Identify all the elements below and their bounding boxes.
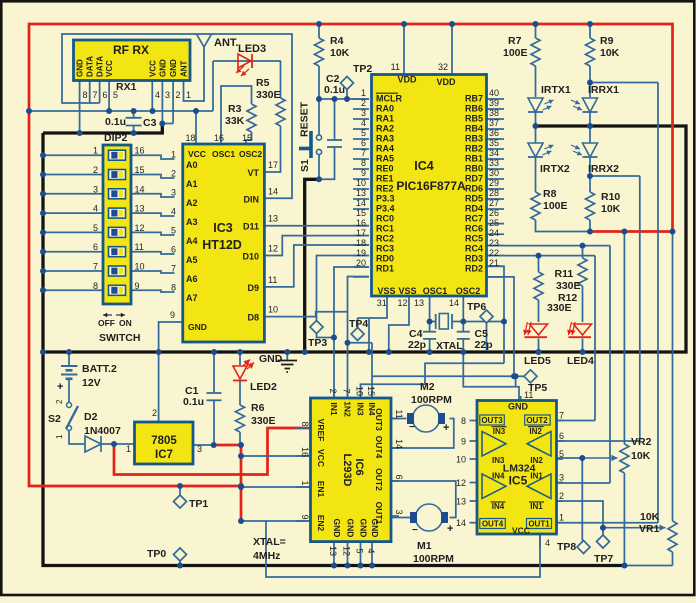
svg-text:330E: 330E (556, 280, 581, 292)
svg-text:7: 7 (93, 90, 98, 100)
svg-text:VDD: VDD (436, 77, 456, 87)
svg-text:GND: GND (332, 519, 342, 538)
svg-text:SWITCH: SWITCH (99, 332, 140, 344)
svg-text:4: 4 (366, 548, 376, 553)
svg-text:DATA: DATA (96, 56, 105, 77)
svg-text:9: 9 (461, 437, 466, 447)
svg-text:11: 11 (268, 275, 277, 285)
svg-text:0.1u: 0.1u (324, 84, 345, 96)
svg-text:2: 2 (328, 388, 338, 393)
svg-text:OUT4: OUT4 (482, 520, 504, 529)
svg-text:R9: R9 (600, 35, 614, 47)
svg-text:S2: S2 (48, 413, 61, 425)
svg-text:OUT1: OUT1 (528, 520, 550, 529)
svg-text:OSC1: OSC1 (212, 149, 235, 159)
svg-text:8: 8 (461, 416, 466, 426)
svg-text:30: 30 (489, 168, 499, 178)
svg-text:R8: R8 (543, 188, 557, 200)
svg-text:GND: GND (508, 402, 529, 412)
svg-text:R6: R6 (251, 402, 265, 414)
svg-text:1: 1 (126, 444, 131, 454)
svg-text:IC4: IC4 (414, 159, 434, 173)
svg-text:IN1: IN1 (530, 502, 543, 511)
svg-text:17: 17 (356, 228, 366, 238)
svg-text:RB5: RB5 (465, 114, 483, 124)
svg-text:3: 3 (361, 108, 366, 118)
svg-text:5: 5 (355, 548, 365, 553)
svg-text:D11: D11 (243, 222, 259, 232)
svg-text:13: 13 (135, 204, 145, 214)
svg-text:6: 6 (171, 245, 176, 255)
svg-text:330E: 330E (256, 89, 281, 101)
svg-text:22p: 22p (475, 339, 493, 351)
svg-text:0.1u: 0.1u (183, 396, 204, 408)
svg-text:+: + (443, 422, 449, 434)
svg-text:20: 20 (356, 258, 366, 268)
svg-text:9: 9 (300, 514, 310, 519)
svg-text:7: 7 (93, 262, 98, 272)
svg-text:8: 8 (171, 283, 176, 293)
svg-text:IC5: IC5 (509, 474, 528, 488)
svg-text:16: 16 (300, 447, 310, 457)
svg-text:4MHz: 4MHz (253, 550, 280, 562)
svg-text:3: 3 (165, 90, 170, 100)
svg-text:11: 11 (524, 390, 533, 400)
svg-text:7805: 7805 (151, 435, 177, 447)
svg-text:VCC: VCC (188, 149, 206, 159)
svg-text:4: 4 (361, 118, 366, 128)
svg-text:R5: R5 (256, 77, 270, 89)
svg-text:1: 1 (171, 150, 176, 160)
svg-text:10K: 10K (600, 47, 620, 59)
svg-text:4: 4 (171, 207, 176, 217)
svg-text:15: 15 (366, 386, 376, 396)
svg-text:6: 6 (394, 474, 404, 479)
svg-text:A4: A4 (186, 236, 198, 246)
svg-text:OUT2: OUT2 (526, 416, 548, 425)
svg-text:P3.4: P3.4 (376, 204, 395, 214)
svg-text:S1: S1 (299, 159, 311, 172)
svg-text:330E: 330E (251, 415, 276, 427)
svg-text:22: 22 (489, 248, 499, 258)
svg-text:TP8: TP8 (557, 541, 576, 553)
svg-text:10: 10 (135, 262, 145, 272)
svg-text:16: 16 (356, 218, 366, 228)
svg-text:RA2: RA2 (376, 124, 394, 134)
svg-text:13: 13 (328, 546, 338, 556)
svg-text:18: 18 (186, 133, 196, 143)
svg-text:GND: GND (188, 322, 207, 332)
svg-text:5: 5 (113, 90, 118, 100)
svg-text:PIC16F877A: PIC16F877A (396, 179, 466, 193)
svg-text:GND: GND (346, 519, 356, 538)
svg-text:10K: 10K (631, 450, 651, 462)
svg-text:38: 38 (489, 108, 499, 118)
svg-text:A2: A2 (186, 198, 198, 208)
svg-text:12: 12 (135, 223, 145, 233)
svg-text:+: + (57, 381, 63, 393)
svg-text:RB7: RB7 (465, 94, 483, 104)
svg-text:LED3: LED3 (238, 43, 266, 55)
svg-text:15: 15 (135, 165, 145, 175)
svg-text:GND: GND (158, 59, 167, 77)
svg-text:ANT.: ANT. (214, 37, 238, 49)
svg-text:28: 28 (489, 188, 499, 198)
svg-text:RX1: RX1 (116, 81, 137, 93)
svg-text:2: 2 (93, 165, 98, 175)
svg-text:RC7: RC7 (465, 214, 483, 224)
svg-text:4: 4 (93, 204, 98, 214)
svg-text:A3: A3 (186, 217, 198, 227)
svg-text:12: 12 (456, 478, 466, 488)
svg-text:IN1: IN1 (329, 402, 339, 416)
svg-text:RD7: RD7 (465, 174, 483, 184)
svg-text:GND: GND (370, 519, 380, 538)
svg-text:P3.3: P3.3 (376, 194, 395, 204)
svg-text:14: 14 (356, 198, 366, 208)
svg-text:RC5: RC5 (465, 234, 483, 244)
svg-text:RA5: RA5 (376, 154, 394, 164)
svg-text:2: 2 (176, 90, 181, 100)
svg-text:2: 2 (55, 399, 64, 404)
svg-text:1: 1 (93, 146, 98, 156)
svg-text:VR1: VR1 (639, 523, 660, 535)
svg-text:XTAL=: XTAL= (253, 536, 286, 548)
svg-text:LED2: LED2 (250, 381, 277, 393)
svg-text:IN3: IN3 (356, 402, 366, 416)
svg-text:M2: M2 (420, 381, 435, 393)
svg-text:9: 9 (361, 168, 366, 178)
svg-text:RD0: RD0 (376, 254, 394, 264)
svg-text:R3: R3 (228, 103, 242, 115)
svg-text:10K: 10K (601, 203, 621, 215)
svg-text:5: 5 (361, 128, 366, 138)
svg-text:14: 14 (135, 184, 145, 194)
svg-text:L293D: L293D (341, 453, 353, 486)
svg-text:24: 24 (489, 228, 499, 238)
svg-text:RF RX: RF RX (113, 43, 149, 57)
svg-text:D9: D9 (247, 283, 259, 293)
svg-text:ANT: ANT (180, 60, 189, 77)
svg-text:6: 6 (559, 431, 564, 441)
svg-text:100E: 100E (503, 47, 528, 59)
svg-text:R10: R10 (601, 191, 620, 203)
svg-text:VCC: VCC (316, 449, 326, 467)
svg-text:ON: ON (119, 318, 132, 328)
svg-text:39: 39 (489, 98, 499, 108)
svg-text:GND: GND (76, 59, 85, 77)
svg-text:11: 11 (391, 62, 400, 72)
svg-text:VSS: VSS (377, 286, 395, 296)
svg-text:BATT.2: BATT.2 (82, 363, 117, 375)
svg-text:OSC2: OSC2 (239, 149, 262, 159)
svg-text:RA3: RA3 (376, 134, 394, 144)
svg-text:16: 16 (214, 133, 224, 143)
svg-text:10: 10 (356, 178, 366, 188)
svg-text:RE0: RE0 (376, 164, 394, 174)
svg-text:10: 10 (268, 305, 278, 315)
svg-text:VCC: VCC (512, 526, 530, 536)
svg-text:1N2: 1N2 (343, 401, 353, 417)
svg-text:13: 13 (456, 497, 466, 507)
svg-text:RA1: RA1 (376, 114, 394, 124)
svg-text:33K: 33K (225, 115, 245, 127)
svg-text:MCLR: MCLR (376, 94, 402, 104)
svg-text:RD3: RD3 (465, 254, 483, 264)
svg-text:RB6: RB6 (465, 104, 483, 114)
svg-text:R7: R7 (508, 35, 522, 47)
svg-text:RE1: RE1 (376, 174, 394, 184)
svg-text:3: 3 (559, 473, 564, 483)
svg-text:IC7: IC7 (155, 449, 173, 461)
svg-text:RD4: RD4 (465, 204, 483, 214)
svg-text:A6: A6 (186, 274, 198, 284)
svg-text:GND: GND (169, 59, 178, 77)
svg-text:12: 12 (342, 546, 352, 556)
svg-text:XTAL: XTAL (436, 340, 463, 352)
svg-text:34: 34 (489, 148, 499, 158)
svg-text:IRTX1: IRTX1 (541, 84, 571, 96)
svg-text:11: 11 (135, 242, 144, 252)
svg-text:EN2: EN2 (316, 515, 326, 532)
svg-text:3: 3 (197, 444, 202, 454)
svg-text:6: 6 (93, 242, 98, 252)
svg-text:EN1: EN1 (316, 481, 326, 498)
svg-text:100RPM: 100RPM (413, 553, 454, 565)
svg-text:RESET: RESET (299, 101, 311, 137)
svg-text:OSC2: OSC2 (456, 286, 481, 296)
svg-text:2: 2 (559, 491, 564, 501)
svg-text:IRRX1: IRRX1 (588, 84, 619, 96)
svg-text:10K: 10K (640, 511, 660, 523)
svg-text:DIP2: DIP2 (104, 132, 128, 144)
svg-text:A5: A5 (186, 255, 198, 265)
svg-text:RB2: RB2 (465, 144, 483, 154)
svg-text:2: 2 (361, 98, 366, 108)
svg-text:VSS: VSS (398, 286, 416, 296)
svg-text:8: 8 (300, 421, 310, 426)
svg-text:OFF: OFF (98, 318, 115, 328)
svg-text:TP1: TP1 (189, 498, 208, 510)
svg-text:13: 13 (268, 214, 278, 224)
svg-text:VDD: VDD (397, 75, 417, 85)
svg-text:RC3: RC3 (376, 244, 394, 254)
svg-text:3: 3 (93, 184, 98, 194)
svg-text:26: 26 (489, 208, 499, 218)
svg-text:OUT3: OUT3 (374, 408, 384, 431)
svg-text:12: 12 (268, 244, 278, 254)
svg-text:RA0: RA0 (376, 104, 394, 114)
svg-text:9: 9 (170, 310, 175, 320)
svg-text:VR2: VR2 (631, 436, 652, 448)
svg-text:35: 35 (489, 138, 499, 148)
svg-text:RD5: RD5 (465, 194, 483, 204)
svg-text:TP2: TP2 (353, 63, 372, 75)
svg-text:11: 11 (394, 409, 404, 418)
svg-text:1N4007: 1N4007 (84, 425, 121, 437)
svg-text:RB1: RB1 (465, 154, 483, 164)
svg-text:OUT2: OUT2 (374, 468, 384, 491)
svg-text:3: 3 (394, 509, 404, 514)
svg-text:5: 5 (559, 449, 564, 459)
svg-text:TP6: TP6 (467, 301, 486, 313)
svg-text:+: + (447, 523, 453, 535)
svg-text:LED5: LED5 (524, 355, 551, 367)
svg-text:19: 19 (356, 248, 366, 258)
svg-text:7: 7 (559, 411, 564, 421)
svg-text:100E: 100E (543, 200, 568, 212)
svg-text:TP7: TP7 (594, 553, 613, 565)
svg-text:1: 1 (361, 88, 366, 98)
svg-text:10: 10 (456, 455, 466, 465)
svg-text:8: 8 (93, 281, 98, 291)
svg-text:TP0: TP0 (147, 548, 166, 560)
svg-text:8: 8 (83, 90, 88, 100)
svg-text:D8: D8 (247, 313, 259, 323)
svg-text:RE2: RE2 (376, 184, 394, 194)
svg-text:10K: 10K (330, 47, 350, 59)
svg-text:GND: GND (259, 353, 283, 365)
svg-text:22p: 22p (408, 339, 426, 351)
svg-text:5: 5 (171, 226, 176, 236)
svg-text:31: 31 (377, 298, 387, 308)
svg-text:25: 25 (489, 218, 499, 228)
svg-text:IRRX2: IRRX2 (588, 163, 619, 175)
svg-text:−: − (409, 422, 415, 433)
svg-text:36: 36 (489, 128, 499, 138)
svg-text:1: 1 (186, 90, 191, 100)
svg-text:40: 40 (489, 88, 499, 98)
svg-text:7: 7 (171, 264, 176, 274)
svg-text:DATA: DATA (86, 56, 95, 77)
svg-text:IN2: IN2 (529, 427, 542, 436)
svg-text:14: 14 (268, 186, 278, 196)
svg-text:TP4: TP4 (349, 318, 368, 330)
svg-text:13: 13 (356, 188, 366, 198)
svg-text:R4: R4 (330, 35, 344, 47)
svg-text:37: 37 (489, 118, 499, 128)
svg-text:330E: 330E (547, 302, 572, 314)
svg-text:RB4: RB4 (465, 124, 483, 134)
svg-text:7: 7 (342, 388, 352, 393)
svg-text:14: 14 (456, 518, 466, 528)
svg-text:VT: VT (247, 168, 259, 178)
svg-text:27: 27 (489, 198, 499, 208)
svg-text:OSC1: OSC1 (423, 286, 448, 296)
svg-text:RC1: RC1 (376, 224, 394, 234)
svg-text:12V: 12V (82, 377, 101, 389)
svg-text:OUT3: OUT3 (481, 416, 503, 425)
svg-text:15: 15 (356, 208, 366, 218)
svg-text:21: 21 (489, 258, 499, 268)
svg-text:IN4: IN4 (492, 502, 505, 511)
svg-text:1: 1 (300, 480, 310, 485)
svg-text:GND: GND (359, 519, 369, 538)
svg-text:1: 1 (55, 434, 64, 439)
svg-text:RC6: RC6 (465, 224, 483, 234)
svg-text:12: 12 (397, 298, 407, 308)
svg-text:15: 15 (242, 133, 252, 143)
svg-text:IC6: IC6 (353, 458, 365, 475)
svg-text:RC0: RC0 (376, 214, 394, 224)
svg-text:RD2: RD2 (465, 264, 483, 274)
svg-text:14: 14 (394, 439, 404, 449)
svg-text:14: 14 (449, 298, 459, 308)
svg-text:VREF: VREF (316, 419, 326, 442)
svg-text:IN3: IN3 (493, 427, 506, 436)
svg-text:6: 6 (102, 90, 107, 100)
svg-text:6: 6 (361, 138, 366, 148)
svg-text:A7: A7 (186, 293, 198, 303)
svg-text:1: 1 (559, 513, 564, 523)
svg-text:A0: A0 (186, 160, 198, 170)
svg-text:5: 5 (93, 223, 98, 233)
svg-text:33: 33 (489, 158, 499, 168)
svg-text:7: 7 (361, 148, 366, 158)
svg-text:100RPM: 100RPM (411, 394, 452, 406)
svg-text:4: 4 (545, 538, 550, 548)
svg-text:RB0: RB0 (465, 164, 483, 174)
svg-text:23: 23 (489, 238, 499, 248)
svg-text:18: 18 (356, 238, 366, 248)
svg-text:RD6: RD6 (465, 184, 483, 194)
svg-text:2: 2 (152, 408, 157, 418)
svg-text:8: 8 (361, 158, 366, 168)
svg-text:A1: A1 (186, 179, 198, 189)
svg-text:LED4: LED4 (567, 355, 594, 367)
svg-text:13: 13 (414, 298, 424, 308)
svg-text:0.1u: 0.1u (105, 116, 126, 128)
svg-text:TP3: TP3 (308, 337, 327, 349)
svg-text:2: 2 (171, 169, 176, 179)
svg-text:32: 32 (438, 62, 448, 72)
svg-text:D2: D2 (84, 411, 98, 423)
svg-text:HT12D: HT12D (202, 238, 242, 252)
svg-text:16: 16 (135, 146, 145, 156)
svg-text:RC2: RC2 (376, 234, 394, 244)
svg-text:VCC: VCC (148, 60, 157, 77)
svg-text:RB3: RB3 (465, 134, 483, 144)
svg-text:3: 3 (171, 188, 176, 198)
svg-text:−: − (412, 525, 418, 536)
svg-text:9: 9 (135, 281, 140, 291)
svg-text:IC3: IC3 (213, 221, 233, 235)
svg-text:C3: C3 (143, 117, 157, 129)
svg-text:4: 4 (155, 90, 160, 100)
svg-text:IRTX2: IRTX2 (540, 163, 570, 175)
svg-text:RC4: RC4 (465, 244, 483, 254)
svg-text:10: 10 (355, 386, 365, 396)
svg-text:RD1: RD1 (376, 264, 394, 274)
svg-text:M1: M1 (417, 540, 432, 552)
svg-text:OUT4: OUT4 (374, 436, 384, 459)
svg-text:D10: D10 (242, 252, 259, 262)
svg-text:17: 17 (268, 160, 278, 170)
svg-text:R11: R11 (555, 268, 574, 280)
svg-text:DIN: DIN (244, 194, 260, 204)
svg-text:VCC: VCC (105, 60, 114, 77)
svg-text:RA4: RA4 (376, 144, 394, 154)
svg-text:29: 29 (489, 178, 499, 188)
